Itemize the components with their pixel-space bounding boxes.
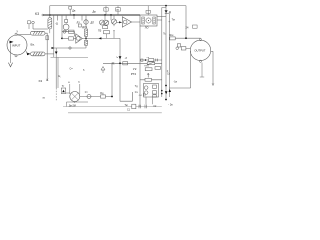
wire stub top x106 (105, 6, 107, 8)
tick plus (167, 70, 168, 71)
relay small square 1 (153, 85, 157, 88)
wire bottom bus2 (68, 112, 162, 114)
node bus x111 (110, 14, 112, 16)
svg-text:ТМ1: ТМ1 (144, 66, 149, 68)
resistor R1 pill (31, 31, 46, 35)
svg-text:б: б (83, 69, 85, 72)
input top terminal (15, 33, 17, 35)
wire arrow to circle (26, 51, 27, 54)
op-amp U1 inner circle (76, 37, 80, 41)
amplidyne box (140, 15, 157, 26)
wire drop to ladder x120 (119, 38, 121, 101)
wire x112 vertical (111, 63, 113, 96)
svg-text:a: a (68, 82, 70, 84)
box on bus1 (132, 104, 136, 109)
svg-text:Cт: Cт (85, 91, 89, 94)
svg-text:Тд: Тд (135, 85, 138, 88)
relay contact circle 2 (144, 91, 148, 95)
node bus x105 (104, 14, 106, 16)
terminal box a1 (28, 21, 31, 29)
node stem-bus junction (49, 14, 51, 16)
bus left terminal (42, 14, 44, 16)
svg-text:б: б (78, 82, 80, 84)
wire x152 down (152, 97, 154, 104)
op-amp U2 inner circle (123, 20, 127, 24)
wire motor right y96.5 (80, 96, 112, 98)
wire R3 to node (85, 36, 87, 40)
svg-text:Cк: Cк (167, 73, 171, 76)
wire Rsh to circle (175, 37, 200, 39)
tach small circle (87, 95, 91, 99)
wire motor right lead up (79, 84, 81, 94)
diode bar (165, 12, 168, 14)
wire rail x56.2 (55, 48, 57, 88)
diode on x166 (165, 10, 168, 13)
arrow into R2 (27, 53, 31, 56)
svg-text:хо: хо (43, 98, 46, 100)
wire field stem (147, 6, 149, 15)
cap C4 vertical (144, 93, 145, 96)
arrow into U2 (119, 21, 121, 23)
svg-text:Тм: Тм (172, 19, 175, 22)
svg-text:РТ2: РТ2 (131, 72, 137, 76)
wire drop x86 (85, 15, 87, 20)
svg-text:Тм: Тм (125, 104, 128, 107)
wire stub x106 (105, 11, 107, 15)
dashed wire bottom (55, 88, 57, 101)
op-amp U1 triangle (76, 34, 83, 43)
resistor box on x66 (65, 20, 68, 23)
diode down x166 (165, 91, 168, 94)
wire rail x169.3 (168, 13, 170, 97)
svg-text:ДП: ДП (91, 22, 95, 25)
node x166 bottom (165, 99, 167, 101)
wire H63 (103, 62, 162, 64)
wire drop x74 (73, 15, 75, 19)
svg-text:24: 24 (186, 26, 189, 30)
svg-text:Bх.: Bх. (31, 43, 36, 47)
wire input down lead (10, 43, 12, 63)
resistor R2 pill (31, 52, 46, 56)
arrow left end H48 (52, 47, 55, 49)
node op-amp output (85, 38, 87, 40)
wire H88 (169, 87, 190, 89)
wire coil bottom stub (49, 29, 51, 33)
black arrow in box (62, 90, 65, 93)
wire upper input row (62, 32, 76, 36)
svg-text:Ц: Ц (59, 75, 61, 78)
pot circle 3 (111, 19, 116, 24)
node bus x74 (73, 14, 75, 16)
wire ladder y79.8 (140, 79, 162, 81)
svg-text:ДУ1: ДУ1 (82, 25, 87, 29)
wire pot3 stub below (113, 24, 115, 26)
svg-text:Дв: Дв (93, 10, 97, 14)
pickup small circle (63, 30, 66, 33)
wire rail x58 (57, 57, 59, 88)
wire right rail x213 (212, 51, 214, 84)
T bar end (200, 76, 204, 78)
pot circle 2 (104, 20, 109, 25)
wire R2 right (45, 53, 54, 55)
tick on rail (169, 21, 171, 23)
motor circle (70, 92, 80, 102)
wire box to lamp (65, 23, 67, 25)
small box left on y60 (141, 59, 143, 61)
cap on y60 (156, 59, 158, 62)
node x120 on H63 (119, 62, 121, 64)
wire drop x62 (61, 15, 63, 38)
amplidyne rotor (146, 18, 151, 23)
field label box (146, 10, 150, 13)
motor cross (72, 93, 79, 100)
generator input circle (7, 35, 27, 55)
node x112 y96.5 (111, 96, 113, 98)
brush arrow inside (10, 41, 14, 44)
X-box on H63 right (147, 62, 155, 65)
svg-text:У2: У2 (133, 67, 137, 71)
arrow between ladder rows (147, 73, 149, 77)
amplidyne left winding (142, 17, 145, 24)
output bottom terminal (199, 60, 201, 62)
arrow end x213 (212, 84, 214, 86)
svg-text:K3: K3 (39, 79, 43, 83)
resistor small on x47 (46, 36, 49, 40)
wire rail x190.6 (190, 51, 192, 88)
wire rail x166 (165, 6, 167, 100)
label P box (104, 8, 108, 11)
relay small square 2 (153, 91, 157, 94)
svg-text:Cз: Cз (135, 91, 138, 94)
box on H63 (123, 62, 128, 65)
tick right of output (211, 50, 213, 52)
svg-text:ЛУ: ЛУ (77, 20, 81, 24)
wire drop x57.5 (57, 15, 59, 21)
resistor Rsh (170, 37, 175, 40)
wire U1 output (82, 37, 120, 39)
svg-text:y: y (17, 29, 19, 33)
relay box LU (79, 24, 82, 27)
relay small square 3 (153, 95, 157, 97)
box on y60 (149, 59, 154, 62)
wire feedback stub (106, 34, 108, 39)
wire meter to R3 (85, 24, 87, 29)
cap pair 1 on bus1 (139, 105, 140, 109)
wire pot3 to U2 (117, 21, 123, 23)
wire drop x66 (65, 15, 67, 20)
right box on row (155, 67, 161, 70)
label box on top line x70 (69, 6, 72, 9)
cap pair 2 on bus1 (145, 105, 146, 109)
label OV box (116, 8, 121, 11)
wire x146 down (145, 97, 147, 104)
svg-text:Rд: Rд (100, 92, 104, 95)
wire drop x105 (104, 15, 106, 20)
wire stub x118 (117, 11, 119, 15)
meter circle (84, 20, 88, 24)
wire rail x53.8 (53, 15, 55, 57)
svg-text:C1: C1 (127, 110, 131, 112)
node a2 tick (46, 79, 48, 81)
wire motor bottom (74, 102, 76, 104)
wire H48 (52, 47, 87, 49)
wire x114 stub (113, 31, 115, 39)
wire amplidyne out y16.5 (157, 16, 166, 18)
pot arrow triangle (101, 67, 105, 71)
wire amplidyne out y20 (157, 19, 162, 21)
op-amp U2 triangle (122, 17, 131, 27)
wire long H57 (51, 56, 89, 58)
wire ladder rail x140 (139, 26, 141, 107)
wire R4 to H48 (85, 45, 87, 48)
wire bottom corner (67, 102, 89, 107)
lamp circle (63, 24, 69, 30)
arrow on output wire (99, 37, 102, 39)
label C on H48 (69, 47, 71, 49)
black marks on x166 (165, 85, 167, 87)
input bottom terminal (15, 55, 17, 57)
output top terminal (199, 39, 201, 41)
svg-text:-б: -б (125, 56, 128, 60)
svg-text:Дв: Дв (72, 9, 76, 12)
node y38 (185, 37, 187, 39)
dots on enclosure rail (161, 90, 163, 92)
svg-text:Rш: Rш (170, 34, 174, 37)
wire ladder top y60 (140, 59, 162, 61)
resistor R4 vertical (85, 40, 88, 45)
amplidyne right winding (153, 17, 156, 24)
pot arrow stem (102, 70, 104, 73)
wire bottom x120 corner (120, 92, 132, 101)
svg-text:C4: C4 (139, 95, 143, 97)
contactor box with arrow (61, 88, 65, 94)
wire top terminal to R1 (17, 33, 31, 35)
wire op-amp input (62, 37, 76, 39)
wire coil stem (49, 6, 51, 18)
svg-text:INPUT: INPUT (12, 43, 21, 47)
output motor circle (190, 40, 210, 60)
svg-text:-1в: -1в (174, 81, 178, 84)
wire lamp bottom (65, 30, 67, 32)
wire output bottom stub (201, 63, 203, 77)
svg-text:П: П (105, 9, 107, 12)
node top right (165, 5, 167, 7)
pot circle 1 (100, 20, 105, 25)
relay box B (181, 47, 186, 50)
svg-text:ЛО: ЛО (145, 27, 149, 30)
svg-text:C=: C= (70, 68, 74, 71)
relay box on row (69, 30, 75, 33)
wire drop x114 (113, 15, 115, 19)
wire drop x82 (81, 15, 83, 21)
svg-text:Тг: Тг (62, 84, 65, 88)
svg-text:-Ω: -Ω (55, 22, 58, 26)
svg-text:- 2в: - 2в (168, 104, 173, 107)
wire enclosure rail x161.8 (161, 8, 163, 98)
arrow down on rail x56 (55, 52, 58, 55)
wire rail connector (166, 12, 169, 14)
wire stub top x118 (117, 6, 119, 8)
relay subbox (144, 84, 159, 98)
node op-amp input (61, 38, 63, 40)
wire rail x183.5 (185, 6, 187, 39)
diode up x169 (169, 89, 172, 92)
feedback box (104, 31, 110, 34)
svg-text:Дв-2М: Дв-2М (69, 105, 76, 108)
tick x114 top (113, 30, 115, 32)
resistor input (69, 37, 74, 40)
wire drop x111 (110, 15, 112, 20)
node a1 antenna symbol (32, 21, 35, 29)
wire top line (50, 5, 186, 7)
wire coil bottom (33, 28, 48, 30)
svg-text:K3: K3 (35, 12, 39, 16)
wire motor left lead up (69, 84, 71, 94)
wire U2 output (132, 21, 141, 23)
svg-text:ПЗ: ПЗ (98, 30, 102, 33)
box below pots (103, 26, 108, 29)
svg-text:OUTPUT: OUTPUT (194, 49, 205, 53)
ground arrow (8, 63, 12, 67)
resistor Rd (101, 95, 106, 98)
tick left of arrow (116, 57, 118, 58)
resistor ladder row (145, 68, 152, 71)
wire enclosure top stub (162, 7, 166, 9)
wiper tick on H63 (112, 62, 114, 65)
node y60 (145, 59, 147, 61)
wire stub x70 (69, 9, 71, 15)
arrow black on x120 (119, 56, 122, 59)
coil L1 winding (48, 18, 52, 30)
resistor R3 vertical (85, 29, 88, 36)
wire bottom bus1 (63, 106, 162, 108)
wire R1 right (45, 33, 47, 81)
relay box A (177, 44, 180, 47)
label v box (193, 25, 198, 28)
wire box to motor (66, 92, 70, 94)
wire main bus (43, 14, 140, 16)
relay contact circle 1 (144, 86, 148, 90)
box on y79.8 (145, 78, 152, 81)
